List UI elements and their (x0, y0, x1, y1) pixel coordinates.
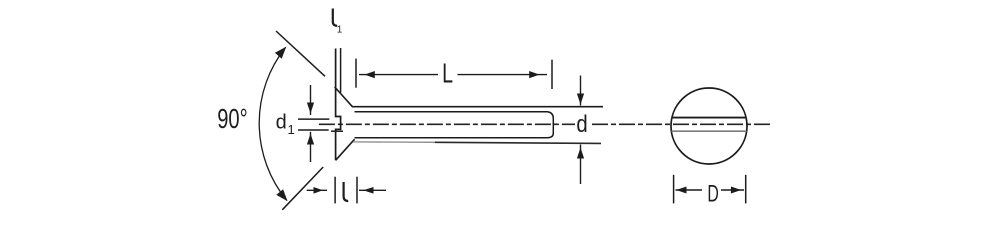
L dimension line left part with arrow (359, 71, 438, 78)
arc arrowhead top (275, 47, 286, 59)
L dimension left extension tick (355, 59, 357, 88)
L dimension right extension tick (551, 60, 553, 89)
d1 top extension line (298, 118, 329, 120)
D dimension right extension tick (745, 175, 747, 204)
l dimension left extension tick (334, 177, 336, 204)
head cone bottom edge (336, 139, 355, 160)
L dimension line right part with arrow (458, 71, 548, 78)
label l (head height) glyph (344, 182, 349, 201)
d1 arrow bottom (points up) (307, 132, 314, 162)
thread minor contour with chamfered end (355, 112, 554, 138)
d dimension bottom arrow (points up) (577, 145, 584, 185)
construction line lower (90 deg cone edge extended) (282, 167, 323, 210)
slot lower edge short segment (331, 130, 343, 132)
d1 arrow top (points down) (307, 85, 314, 115)
slot bottom chord (light) (672, 130, 747, 132)
D dimension left arrow (points left) (676, 187, 703, 194)
centerline (screw axis, dash-dot) (319, 123, 771, 125)
slot top chord (672, 117, 747, 119)
slot depth extension line above head (340, 48, 342, 93)
svg-text:L: L (442, 58, 453, 89)
svg-text:d: d (276, 111, 287, 133)
D dimension left extension tick (673, 175, 675, 204)
d dimension top arrow (points down) (577, 76, 584, 106)
end view circle (head outline) (671, 88, 747, 164)
svg-text:d: d (576, 110, 587, 137)
arc arrowhead bottom (276, 189, 287, 201)
l dimension right arrow (points left) (359, 187, 386, 194)
head cone top edge (335, 87, 353, 107)
l dimension left arrow (points right) (307, 187, 327, 194)
d1 bottom extension line (298, 129, 329, 131)
svg-text:1: 1 (337, 25, 343, 36)
angular dimension arc 90deg (259, 47, 287, 200)
label l1 (slot depth) glyph l (333, 9, 337, 26)
svg-text:90°: 90° (217, 104, 247, 135)
D dimension right arrow (points right) (721, 187, 744, 194)
screw head face with slot jog (336, 49, 341, 161)
svg-text:D: D (707, 181, 718, 207)
shank bottom outer line light part (353, 141, 435, 143)
construction line upper (90 deg cone edge extended) (276, 31, 325, 76)
shank bottom outer line dark part (also ext line for d) (435, 142, 601, 143)
l dimension right extension tick (356, 177, 358, 204)
shank top outer line (also ext line for d) (352, 106, 603, 108)
svg-text:1: 1 (288, 122, 295, 137)
